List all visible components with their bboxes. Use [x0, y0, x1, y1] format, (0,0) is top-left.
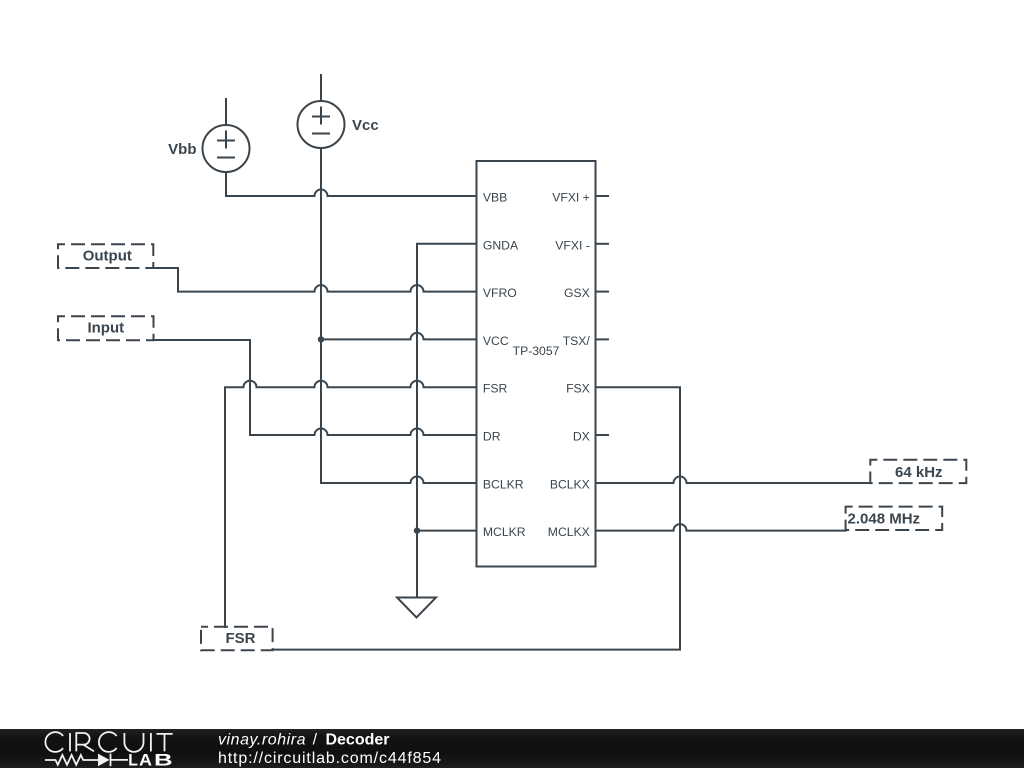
svg-text:GNDA: GNDA [483, 238, 519, 252]
svg-text:TP-3057: TP-3057 [513, 344, 560, 358]
svg-text:VFXI +: VFXI + [552, 191, 590, 205]
svg-text:FSR: FSR [483, 382, 508, 396]
svg-text:MCLKX: MCLKX [548, 525, 590, 539]
svg-text:TSX/: TSX/ [563, 334, 591, 348]
svg-text:GSX: GSX [564, 286, 590, 300]
svg-text:FSR: FSR [226, 630, 256, 647]
svg-text:BCLKX: BCLKX [550, 477, 590, 491]
svg-text:Vbb: Vbb [168, 141, 196, 158]
svg-text:vinay.rohira / Decoder: vinay.rohira / Decoder [218, 732, 390, 749]
svg-text:VBB: VBB [483, 191, 507, 205]
svg-text:L: L [128, 752, 138, 768]
svg-text:http://circuitlab.com/c44f854: http://circuitlab.com/c44f854 [218, 750, 442, 767]
svg-text:VCC: VCC [483, 334, 509, 348]
svg-text:DX: DX [573, 430, 590, 444]
svg-text:VFXI -: VFXI - [555, 238, 590, 252]
svg-text:FSX: FSX [566, 382, 590, 396]
svg-text:64 kHz: 64 kHz [895, 464, 943, 481]
svg-text:Input: Input [87, 320, 124, 337]
svg-text:2.048 MHz: 2.048 MHz [848, 510, 921, 527]
svg-text:B: B [154, 752, 173, 768]
svg-text:Output: Output [83, 248, 132, 265]
svg-text:DR: DR [483, 430, 501, 444]
svg-text:Vcc: Vcc [352, 117, 379, 134]
svg-text:VFRO: VFRO [483, 286, 517, 300]
svg-text:BCLKR: BCLKR [483, 477, 524, 491]
svg-text:A: A [139, 752, 152, 768]
svg-text:MCLKR: MCLKR [483, 525, 526, 539]
